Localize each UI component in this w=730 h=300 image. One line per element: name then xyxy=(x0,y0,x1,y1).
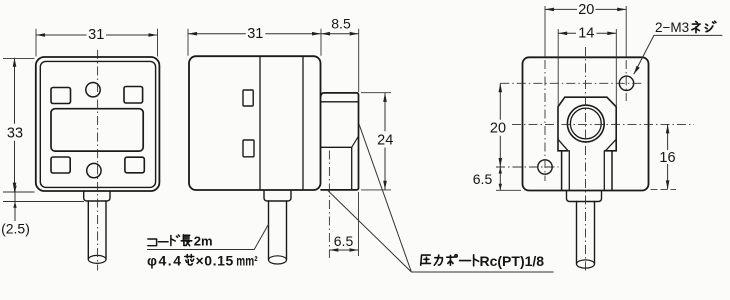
svg-text:Rc(PT)1/8: Rc(PT)1/8 xyxy=(480,253,545,269)
front cable strain relief xyxy=(84,191,110,201)
side cable strain relief xyxy=(264,191,291,202)
rear cable end ellipse xyxy=(577,260,595,268)
side dim 8.5: extension line right xyxy=(358,29,360,92)
front cable sides xyxy=(88,201,106,259)
svg-text:20: 20 xyxy=(490,120,506,136)
front dim 31: right arrow xyxy=(149,33,158,37)
side rear port block outline xyxy=(321,93,359,190)
side cable end ellipse xyxy=(269,256,287,264)
svg-text:8.5: 8.5 xyxy=(331,16,351,32)
rear M3 hole top-right xyxy=(619,76,633,90)
glyph ド xyxy=(171,235,180,246)
rear dim 20 top: extension lines xyxy=(545,6,626,57)
svg-text:×0.15: ×0.15 xyxy=(196,252,234,268)
svg-text:16: 16 xyxy=(659,150,675,166)
rear M3 label glyphs ネジ xyxy=(692,21,716,32)
side dim 8.5: right arrow xyxy=(350,32,359,36)
side cable sides xyxy=(269,201,287,260)
rear port horizontal centerline xyxy=(512,123,694,125)
rear vertical centerline xyxy=(585,47,587,274)
side port block step line xyxy=(321,101,359,103)
glyph ー xyxy=(460,254,471,267)
glyph 長 xyxy=(181,235,191,246)
side clip slot upper xyxy=(243,90,253,106)
front display window xyxy=(51,109,143,151)
side dim 24: top arrow xyxy=(383,93,387,102)
svg-text:6.5: 6.5 xyxy=(334,233,354,249)
rear M3 label leader arrowhead xyxy=(634,66,640,74)
side clip slot lower xyxy=(243,140,254,157)
side port chamfer line xyxy=(352,136,359,147)
svg-text:31: 31 xyxy=(247,26,263,42)
front bottom circle button xyxy=(87,163,101,177)
front top circle button xyxy=(86,83,100,97)
front top-left key square xyxy=(51,88,71,104)
svg-text:2−M3: 2−M3 xyxy=(655,20,689,35)
side dim 8.5: left arrow xyxy=(321,32,330,36)
side dim 8.5: dimension line xyxy=(321,33,359,35)
svg-text:20: 20 xyxy=(578,2,594,18)
rear M3 hole bottom-left xyxy=(538,160,552,174)
front dim 33: top arrow xyxy=(13,58,17,67)
side port axis centerline xyxy=(328,151,330,259)
rear dim 20 left: top arrow xyxy=(499,83,503,92)
rear dim 6.5 left: bottom extension line xyxy=(496,189,521,191)
svg-text:2m: 2m xyxy=(194,234,213,249)
front dim (2.5): arrow to top tick xyxy=(13,186,16,192)
glyph ネ xyxy=(692,22,700,33)
glyph ー xyxy=(158,236,168,249)
front dim 33: bottom arrow xyxy=(13,183,17,192)
rear dim 6.5 left: bottom arrow xyxy=(499,184,502,191)
svg-text:33: 33 xyxy=(7,125,23,141)
rear dim 14: extension lines xyxy=(558,29,616,106)
side dim 31: extension lines xyxy=(188,29,321,56)
rear cable strain relief xyxy=(567,192,602,202)
svg-text:6.5: 6.5 xyxy=(473,171,493,187)
front bottom-left key square xyxy=(51,157,70,173)
side dim 31: right arrow xyxy=(312,32,321,36)
front top-right key square xyxy=(124,87,143,104)
rear dim 6.5 left: top arrow xyxy=(499,167,502,174)
rear dim 14: left arrow xyxy=(558,32,567,36)
cable label line1: コード長2m (drawn glyphs + latin) xyxy=(148,235,192,246)
rear dim 20 top: left arrow xyxy=(545,8,554,12)
cable label leader underline xyxy=(147,224,269,249)
svg-text:(2.5): (2.5) xyxy=(1,221,30,237)
rear M3 top hole horizontal centerline xyxy=(500,82,644,84)
front bottom-right key square xyxy=(125,157,144,173)
rear hex boss left chamfer xyxy=(558,139,568,151)
front dim 33: extension lines xyxy=(3,58,35,192)
front dim 31: left arrow xyxy=(36,33,45,37)
rear port inner circle xyxy=(570,108,601,139)
rear M3 label leader xyxy=(634,35,723,74)
rear dim 16: bottom arrow xyxy=(666,180,670,189)
rear dim 6.5 left: dimension line xyxy=(499,167,501,190)
rear hex boss left side xyxy=(558,97,568,151)
side dim 24: bottom extension line xyxy=(361,189,391,191)
front cable end ellipse xyxy=(88,255,106,263)
side body divider line 1 xyxy=(259,57,261,190)
svg-text:φ4.4: φ4.4 xyxy=(147,252,182,268)
rear dim 14: dimension line xyxy=(558,32,616,34)
rear column inner left wall xyxy=(568,151,570,190)
rear cable sides xyxy=(577,202,595,265)
glyph ジ xyxy=(705,21,716,31)
front dim 33: dimension line xyxy=(14,58,16,192)
glyph 力 xyxy=(434,255,442,265)
rear port outer circle xyxy=(567,105,604,142)
front dim (2.5): dimension line with outside arrows xyxy=(14,186,16,222)
front dim 31: extension lines xyxy=(36,29,158,57)
pressure port label: 圧力ポート (drawn glyphs) xyxy=(421,255,479,266)
rear dim 16: top arrow xyxy=(666,124,670,133)
side port lower step horizontal xyxy=(321,146,352,148)
side dim 6.5: left arrow xyxy=(329,248,338,252)
side dim 31: dimension line xyxy=(188,33,321,35)
front outer body outline xyxy=(36,57,160,191)
side dim 6.5: dimension line xyxy=(329,249,358,251)
glyph ポ xyxy=(447,255,457,266)
rear dim 20 left: bottom arrow xyxy=(499,158,503,167)
svg-text:31: 31 xyxy=(88,27,104,43)
svg-text:14: 14 xyxy=(578,26,594,42)
rear M3 bottom hole horizontal centerline xyxy=(496,166,559,168)
rear dim 20 top: dimension line xyxy=(545,8,626,10)
front inner bezel outline xyxy=(40,61,155,187)
rear column inner right wall xyxy=(603,151,605,190)
rear M3 top hole vertical centerline xyxy=(625,60,627,101)
side dim 24: bottom arrow xyxy=(383,181,387,190)
side dim 24: dimension line xyxy=(384,93,386,190)
rear dim 14: right arrow xyxy=(607,32,616,36)
rear M3 bottom hole vertical centerline xyxy=(544,60,546,181)
rear column outer left wall xyxy=(561,151,563,190)
rear dim 16: bottom extension dashes xyxy=(651,188,677,190)
rear column outer right wall xyxy=(611,151,613,190)
side body divider line 2 xyxy=(302,57,304,190)
svg-text:mm²: mm² xyxy=(236,253,257,269)
side dim 31: left arrow xyxy=(188,32,197,36)
rear dim 20 left: dimension line xyxy=(499,83,501,167)
pressure port label leaders xyxy=(328,124,412,272)
rear hex boss right chamfer xyxy=(605,139,616,151)
rear dim 16: dimension line xyxy=(667,124,669,189)
side dim 6.5: right extension line xyxy=(358,192,360,256)
rear hex boss top flat and right side xyxy=(565,97,616,151)
front vertical centerline xyxy=(97,50,99,271)
side dim 6.5: right arrow xyxy=(350,248,359,252)
rear body outline xyxy=(523,57,649,190)
front dim 31: dimension line xyxy=(36,34,158,36)
front dim (2.5): lower extension line xyxy=(3,201,84,203)
side body outline xyxy=(189,56,321,190)
glyph ト xyxy=(474,255,479,266)
side dim 24: top extension line xyxy=(361,92,391,94)
pressure port label underline xyxy=(411,271,553,273)
side port lower step vertical xyxy=(351,147,353,190)
glyph コ xyxy=(148,239,157,246)
front dim (2.5): arrow to bottom tick xyxy=(13,202,16,208)
rear dim 20 top: right arrow xyxy=(617,8,626,12)
glyph 芯 xyxy=(185,255,194,266)
glyph 圧 xyxy=(421,255,431,265)
svg-text:24: 24 xyxy=(377,132,393,148)
